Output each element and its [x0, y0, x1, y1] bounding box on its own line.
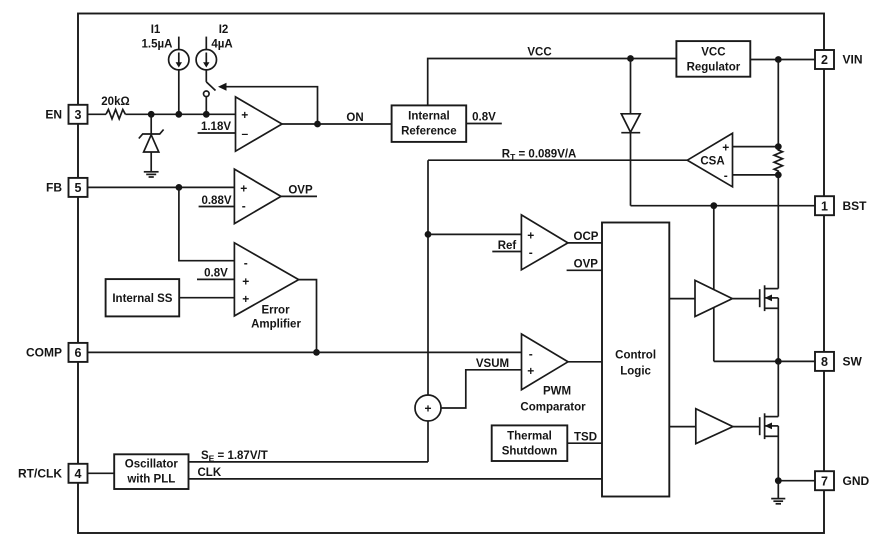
svg-text:-: -	[529, 347, 533, 361]
svg-text:+: +	[242, 292, 249, 306]
svg-text:I1: I1	[151, 24, 161, 36]
wire summing node to slope ramp	[427, 421, 429, 462]
svg-text:+: +	[722, 141, 729, 155]
wire ON from U1 to Internal Reference	[282, 112, 392, 124]
svg-text:Thermal: Thermal	[507, 431, 552, 443]
node OVP input stub to Control Logic	[567, 259, 602, 271]
pin 1 BST	[815, 196, 867, 215]
pin 3 EN	[45, 105, 87, 124]
wire driver to low-side gate	[733, 426, 760, 428]
resistor Rsense vertical	[774, 147, 782, 175]
wire BST line to pin 1	[631, 205, 816, 207]
svg-text:+: +	[240, 182, 247, 196]
wire BST rail through high-side driver	[713, 206, 715, 362]
wire COMP from pin 6 to PWM comparator	[88, 351, 522, 353]
node Rsense top junction	[775, 143, 782, 150]
svg-text:Comparator: Comparator	[520, 402, 586, 414]
node ON junction	[314, 121, 321, 128]
wire VCC Regulator to pin 2 VIN	[750, 59, 815, 61]
wire Control Logic to low-side driver	[669, 426, 696, 428]
wire GND to pin 7	[778, 480, 815, 482]
svg-text:+: +	[242, 275, 249, 289]
ground power ground	[771, 499, 785, 504]
svg-text:RT = 0.089V/A: RT = 0.089V/A	[502, 148, 577, 162]
svg-text:1.18V: 1.18V	[201, 121, 231, 133]
svg-text:-: -	[242, 199, 246, 213]
wire FB from pin 5	[88, 186, 235, 188]
pin 6 COMP	[26, 343, 88, 362]
svg-text:–: –	[241, 127, 248, 141]
wire GND stem	[777, 481, 779, 499]
node I1 junction	[175, 111, 182, 118]
svg-text:4: 4	[75, 467, 82, 481]
svg-text:+: +	[424, 401, 431, 415]
svg-text:Error: Error	[261, 305, 290, 317]
svg-text:TSD: TSD	[574, 432, 597, 444]
wire SE slope output to summing node	[189, 450, 429, 464]
svg-text:COMP: COMP	[26, 346, 62, 360]
wire VCC from Internal Reference to VCC Regulator	[428, 47, 677, 106]
svg-text:I2: I2	[219, 24, 229, 36]
pin 8 SW	[815, 352, 863, 371]
svg-text:VIN: VIN	[843, 53, 863, 67]
block Internal SS	[106, 279, 180, 316]
svg-text:Amplifier: Amplifier	[251, 319, 301, 331]
zener diode D1 on EN node	[139, 114, 164, 171]
wire to OCP comparator + input	[428, 233, 521, 235]
node Ref input stub	[492, 240, 521, 252]
node VIN junction	[775, 56, 782, 63]
svg-text:+: +	[527, 228, 534, 242]
svg-text:CLK: CLK	[198, 467, 222, 479]
svg-text:BST: BST	[843, 199, 868, 213]
node 0.8V reference input	[197, 268, 234, 280]
svg-text:-: -	[724, 169, 728, 183]
summing node adder	[415, 395, 441, 421]
svg-text:0.8V: 0.8V	[204, 268, 228, 280]
svg-text:7: 7	[821, 474, 828, 488]
svg-text:8: 8	[821, 355, 828, 369]
wire VSUM into PWM comparator	[441, 358, 522, 408]
svg-text:VCC: VCC	[527, 47, 551, 59]
svg-text:1: 1	[821, 199, 828, 213]
svg-text:with PLL: with PLL	[126, 474, 175, 486]
svg-text:SE = 1.87V/T: SE = 1.87V/T	[201, 450, 268, 464]
svg-text:2: 2	[821, 53, 828, 67]
wire SW line to pin 8	[714, 360, 815, 362]
node BST junction	[710, 202, 717, 209]
node 0.8V output stub	[466, 112, 502, 124]
svg-text:4µA: 4µA	[211, 39, 232, 51]
current source I2 4uA	[196, 24, 233, 82]
op-amp CSA current sense amplifier	[687, 133, 778, 187]
svg-text:+: +	[527, 364, 534, 378]
wire PWM output to Control Logic	[568, 361, 602, 363]
node I2 junction	[203, 111, 210, 118]
wire FB to error amplifier inverting input	[179, 187, 235, 260]
transistor Q2 low-side NMOS	[760, 361, 779, 480]
svg-text:PWM: PWM	[543, 386, 571, 398]
wire EN from pin 3 to comparator U1	[88, 113, 107, 115]
svg-text:Internal: Internal	[408, 111, 450, 123]
svg-text:OVP: OVP	[574, 259, 599, 271]
pin 4 RT/CLK	[18, 464, 88, 483]
node zener junction	[148, 111, 155, 118]
svg-text:ON: ON	[346, 112, 363, 124]
wire TSD to Control Logic	[567, 432, 602, 444]
svg-text:RT/CLK: RT/CLK	[18, 467, 62, 481]
wire vertical sense bus to summing node	[427, 160, 429, 395]
svg-text:SW: SW	[843, 355, 863, 369]
svg-text:VSUM: VSUM	[476, 358, 509, 370]
svg-text:EN: EN	[45, 108, 62, 122]
node 1.18V reference input	[198, 121, 236, 133]
wire Control Logic to high-side driver	[669, 298, 695, 300]
wire RT current sense output	[428, 148, 687, 162]
svg-text:GND: GND	[843, 474, 870, 488]
node VCC junction	[627, 55, 634, 62]
svg-text:3: 3	[75, 108, 82, 122]
svg-text:Internal SS: Internal SS	[112, 293, 172, 305]
block Oscillator with PLL	[114, 454, 188, 489]
ground below zener	[144, 172, 159, 177]
svg-text:5: 5	[75, 181, 82, 195]
block Control Logic	[602, 223, 669, 497]
node Rsense bottom junction	[775, 172, 782, 179]
node FB junction	[176, 184, 183, 191]
op-amp U2 OCP comparator	[521, 215, 568, 270]
svg-text:+: +	[241, 108, 248, 122]
node SW junction	[775, 358, 782, 365]
diode D2 VCC to BST	[621, 59, 640, 206]
wire VIN rail down to sense resistor	[777, 60, 779, 147]
node COMP junction	[313, 349, 320, 356]
pin 7 GND	[815, 471, 870, 490]
svg-text:VCC: VCC	[701, 47, 725, 59]
block Internal Reference	[392, 105, 467, 141]
wire Rsense to high-side FET drain	[777, 175, 779, 289]
resistor 20k on EN	[101, 96, 129, 119]
node OCP branch junction	[425, 231, 432, 238]
svg-text:0.8V: 0.8V	[472, 112, 496, 124]
svg-text:Logic: Logic	[620, 366, 651, 378]
block VCC Regulator	[676, 41, 750, 77]
wire Internal SS to error amplifier	[179, 297, 234, 299]
wire comparator feedback to switch with arrow	[218, 83, 318, 124]
svg-text:Control: Control	[615, 350, 656, 362]
wire pin 4 to oscillator	[88, 472, 115, 474]
svg-text:0.88V: 0.88V	[201, 195, 231, 207]
wire OCP output to Control Logic	[568, 231, 602, 243]
buffer high-side gate driver	[695, 280, 732, 316]
node 0.88V reference input	[199, 195, 235, 207]
svg-text:Shutdown: Shutdown	[502, 446, 558, 458]
wire driver to high-side gate	[732, 298, 759, 300]
svg-text:-: -	[529, 246, 533, 260]
pin 2 VIN	[815, 50, 863, 69]
op-amp U4 error amplifier	[234, 243, 301, 331]
svg-text:FB: FB	[46, 181, 62, 195]
switch SW1 on I2	[204, 82, 216, 114]
svg-text:OCP: OCP	[574, 231, 599, 243]
wire error amplifier output to COMP	[299, 280, 317, 353]
wire CLK to Control Logic	[189, 467, 603, 479]
block Thermal Shutdown	[492, 425, 568, 461]
transistor Q1 high-side NMOS	[760, 285, 779, 361]
svg-text:-: -	[244, 256, 248, 270]
svg-text:20kΩ: 20kΩ	[101, 96, 129, 108]
op-amp U3 OVP comparator	[234, 169, 281, 224]
svg-text:Oscillator: Oscillator	[125, 459, 179, 471]
wire OVP output stub	[281, 185, 317, 197]
op-amp U1 enable comparator	[236, 97, 283, 151]
svg-text:CSA: CSA	[700, 155, 724, 167]
svg-text:6: 6	[75, 346, 82, 360]
current source I1 1.5uA	[142, 24, 189, 114]
svg-text:Ref: Ref	[498, 240, 517, 252]
svg-text:OVP: OVP	[288, 185, 313, 197]
node GND junction	[775, 477, 782, 484]
svg-text:Regulator: Regulator	[687, 62, 741, 74]
svg-text:Reference: Reference	[401, 126, 457, 138]
pin 5 FB	[46, 178, 88, 197]
op-amp U5 PWM comparator	[520, 334, 586, 414]
buffer low-side gate driver	[696, 409, 733, 444]
svg-text:1.5µA: 1.5µA	[142, 39, 173, 51]
